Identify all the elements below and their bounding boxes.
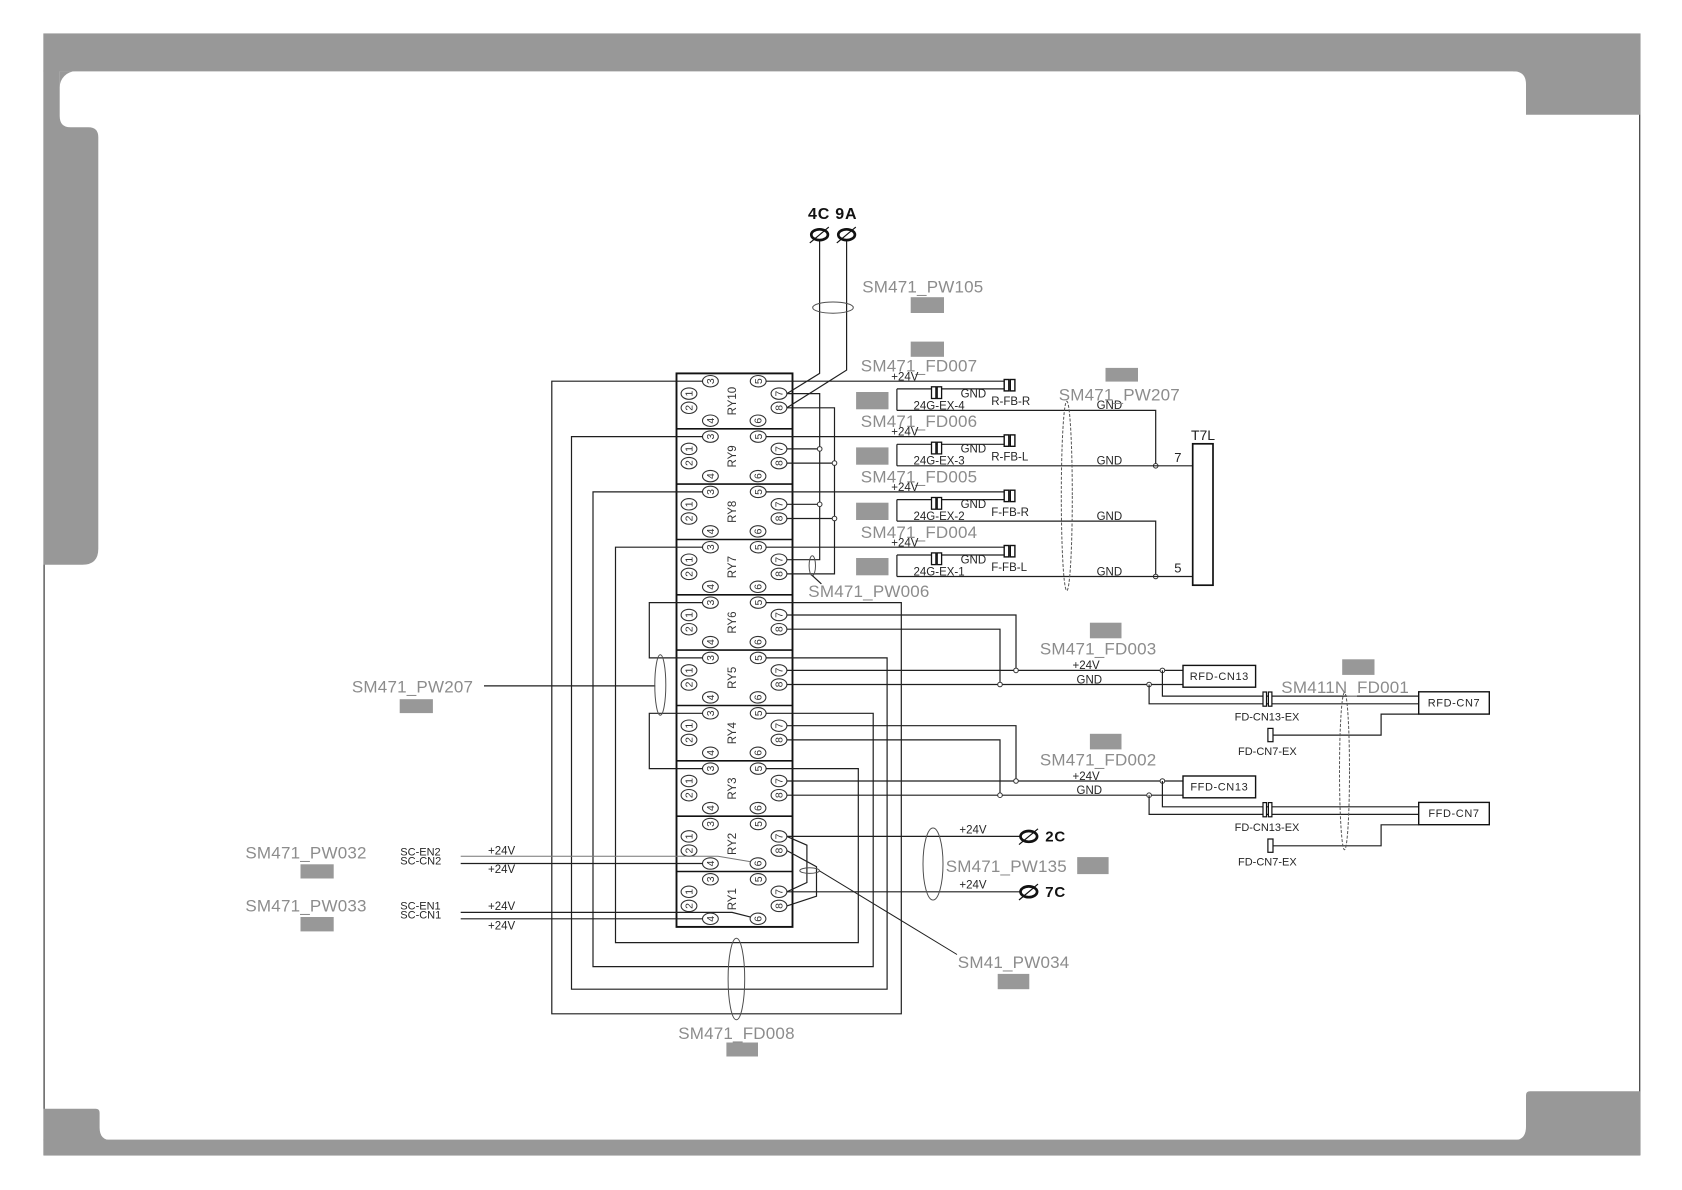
cable ellipse SM471_FD008	[728, 938, 745, 1020]
svg-text:4: 4	[705, 528, 717, 534]
svg-text:RY4: RY4	[727, 722, 739, 745]
wire loop RY10.3 - RY6.5	[552, 381, 902, 1014]
cable ellipse SM471_PW006	[809, 556, 815, 576]
GND rail FD005	[897, 521, 1156, 576]
svg-text:1: 1	[684, 667, 696, 673]
svg-text:7: 7	[774, 612, 786, 618]
junction RY8.7	[817, 502, 822, 507]
cable ellipse SM471_PW207	[655, 655, 666, 715]
svg-text:GND: GND	[961, 444, 987, 456]
svg-text:3: 3	[705, 821, 717, 827]
svg-text:5: 5	[753, 544, 765, 550]
svg-text:2: 2	[684, 848, 696, 854]
svg-text:7: 7	[774, 667, 786, 673]
chain RY2.7 - RY1.7	[787, 836, 807, 891]
svg-text:8: 8	[774, 848, 786, 854]
wire RY6.7 drop	[787, 615, 1016, 670]
relay RY7 pins	[681, 542, 787, 593]
svg-text:F-FB-R: F-FB-R	[991, 507, 1029, 519]
svg-text:5: 5	[753, 766, 765, 772]
terminal 7C	[1019, 884, 1038, 900]
svg-text:FFD-CN13: FFD-CN13	[1190, 782, 1248, 794]
svg-text:6: 6	[753, 639, 765, 645]
svg-text:GND: GND	[961, 499, 987, 511]
svg-text:RY7: RY7	[727, 556, 739, 578]
svg-text:RY3: RY3	[727, 777, 739, 799]
svg-text:SM471_FD002: SM471_FD002	[1040, 750, 1157, 769]
svg-text:5: 5	[753, 434, 765, 440]
svg-text:GND: GND	[961, 554, 987, 566]
svg-text:5: 5	[753, 710, 765, 716]
svg-text:7: 7	[774, 501, 786, 507]
wire RY2.7 - 2C	[787, 835, 1020, 837]
terminal 4C	[810, 227, 829, 243]
svg-text:FD-CN7-EX: FD-CN7-EX	[1238, 857, 1297, 869]
svg-text:8: 8	[774, 792, 786, 798]
svg-text:2: 2	[684, 681, 696, 687]
junction GND 5	[1153, 574, 1158, 579]
relay divider RY5/RY4	[677, 705, 793, 707]
svg-text:3: 3	[705, 489, 717, 495]
tap RY8.7	[787, 503, 820, 505]
svg-text:5: 5	[753, 655, 765, 661]
relay RY1 pins	[681, 874, 787, 925]
svg-text:SM41_PW034: SM41_PW034	[958, 953, 1070, 972]
svg-text:R-FB-L: R-FB-L	[991, 452, 1029, 464]
gray swatch SM471_PW207 (right)	[1106, 368, 1139, 382]
svg-text:7C: 7C	[1045, 884, 1066, 901]
svg-text:6: 6	[753, 860, 765, 866]
svg-text:RY6: RY6	[727, 611, 739, 633]
svg-text:RY5: RY5	[727, 667, 739, 689]
svg-text:SM411N_FD001: SM411N_FD001	[1281, 678, 1409, 697]
wire RY4.7 drop	[787, 726, 1016, 781]
gray swatch SM41_PW034	[998, 974, 1030, 989]
gray frame: top-right block	[1513, 71, 1640, 115]
relay RY2 pins	[681, 818, 787, 869]
tap RY9.7	[787, 448, 820, 450]
wire loop RY9.3 - RY5.5	[572, 437, 888, 990]
svg-text:T7L: T7L	[1191, 427, 1215, 443]
cable ellipse SM471_PW105	[813, 302, 854, 313]
svg-text:3: 3	[705, 378, 717, 384]
svg-text:2: 2	[684, 571, 696, 577]
svg-text:7: 7	[774, 446, 786, 452]
chain RY2.8 - RY1.8	[787, 851, 817, 906]
svg-text:SM471_PW105: SM471_PW105	[862, 278, 983, 297]
gray frame: bottom bar	[43, 1140, 1640, 1156]
svg-text:7: 7	[774, 723, 786, 729]
svg-text:SM471_PW135: SM471_PW135	[946, 857, 1067, 876]
group SM471_FD006	[766, 412, 1029, 468]
svg-text:2: 2	[684, 460, 696, 466]
group SM471_FD005	[766, 467, 1029, 523]
relay divider RY6/RY5	[677, 649, 793, 651]
svg-text:4: 4	[705, 860, 717, 866]
svg-text:GND: GND	[961, 388, 987, 400]
svg-text:SM471_FD008: SM471_FD008	[678, 1024, 795, 1043]
svg-text:1: 1	[684, 391, 696, 397]
connector T7L	[1193, 444, 1213, 585]
label pointer SM471_PW006	[812, 576, 821, 584]
svg-text:4: 4	[705, 584, 717, 590]
svg-text:RY10: RY10	[727, 387, 739, 416]
wire RY1.7 - 7C	[787, 891, 1020, 893]
svg-text:7: 7	[774, 557, 786, 563]
svg-text:5: 5	[753, 876, 765, 882]
wire 4C - RY10.7	[787, 242, 820, 394]
svg-text:SM471_FD007: SM471_FD007	[861, 357, 978, 376]
svg-text:8: 8	[774, 681, 786, 687]
relay divider RY4/RY3	[677, 760, 793, 762]
svg-text:6: 6	[753, 473, 765, 479]
svg-text:GND: GND	[1097, 456, 1123, 468]
svg-text:8: 8	[774, 515, 786, 521]
svg-text:4: 4	[705, 418, 717, 424]
svg-text:1: 1	[684, 446, 696, 452]
tap RY8.8	[787, 518, 835, 520]
cable ellipse SM471_PW135	[923, 828, 943, 900]
svg-text:7: 7	[774, 778, 786, 784]
svg-text:SM471_FD006: SM471_FD006	[861, 412, 978, 431]
GND rail FD004 to T7L pin5	[897, 576, 1193, 578]
svg-text:R-FB-R: R-FB-R	[991, 396, 1030, 408]
svg-text:4C 9A: 4C 9A	[808, 206, 857, 223]
svg-text:3: 3	[705, 434, 717, 440]
svg-text:4: 4	[705, 639, 717, 645]
svg-text:8: 8	[774, 571, 786, 577]
terminal 9A	[837, 227, 856, 243]
svg-text:2: 2	[684, 515, 696, 521]
svg-text:3: 3	[705, 710, 717, 716]
svg-text:SM471_PW207: SM471_PW207	[352, 678, 473, 697]
svg-text:5: 5	[1174, 561, 1181, 576]
svg-text:2: 2	[684, 405, 696, 411]
svg-text:7: 7	[774, 833, 786, 839]
relay divider RY10/RY9	[677, 428, 793, 430]
cable ellipse SM471_PW207 (right)	[1061, 401, 1072, 590]
GND rail FD006 to T7L pin7	[897, 465, 1193, 467]
svg-text:4: 4	[705, 805, 717, 811]
gray frame: bottom-left block	[43, 1109, 111, 1141]
svg-text:1: 1	[684, 889, 696, 895]
svg-text:SM471_PW033: SM471_PW033	[245, 896, 366, 915]
svg-text:FD-CN13-EX: FD-CN13-EX	[1235, 822, 1300, 834]
svg-text:7: 7	[774, 391, 786, 397]
terminal 2C	[1019, 829, 1038, 845]
svg-text:5: 5	[753, 600, 765, 606]
svg-text:6: 6	[753, 528, 765, 534]
GND rail FD007	[897, 410, 1156, 465]
gray swatch SM471_PW105	[911, 297, 944, 313]
svg-text:6: 6	[753, 916, 765, 922]
svg-text:8: 8	[774, 737, 786, 743]
svg-text:SM471_FD004: SM471_FD004	[861, 523, 978, 542]
svg-text:RFD-CN13: RFD-CN13	[1190, 671, 1249, 683]
svg-text:+24V: +24V	[488, 846, 516, 858]
relay column outline	[677, 373, 793, 927]
junction RY8.8	[832, 516, 837, 521]
gray swatch SM411N_FD001	[1342, 659, 1374, 675]
svg-text:1: 1	[684, 723, 696, 729]
label pointer SM41_PW034	[819, 871, 957, 955]
wire jog RY6.3 - RY5.3	[649, 603, 702, 658]
svg-text:+24V: +24V	[488, 920, 516, 932]
svg-text:SM471_FD005: SM471_FD005	[861, 467, 978, 486]
junction RY9.7	[817, 447, 822, 452]
svg-text:6: 6	[753, 750, 765, 756]
svg-text:2: 2	[684, 903, 696, 909]
svg-text:6: 6	[753, 584, 765, 590]
relay divider RY8/RY7	[677, 539, 793, 541]
svg-text:FD-CN7-EX: FD-CN7-EX	[1238, 746, 1297, 758]
svg-text:FFD-CN7: FFD-CN7	[1428, 808, 1479, 820]
svg-text:2C: 2C	[1045, 829, 1066, 846]
cable ellipse SM41_PW034	[800, 868, 820, 874]
wire jog RY4.3 - RY3.3	[649, 713, 702, 768]
svg-text:5: 5	[753, 378, 765, 384]
svg-text:2: 2	[684, 626, 696, 632]
group SM471_FD007	[766, 357, 1030, 413]
svg-text:3: 3	[705, 544, 717, 550]
svg-text:8: 8	[774, 626, 786, 632]
relay RY10 pins	[681, 376, 787, 427]
svg-text:1: 1	[684, 501, 696, 507]
svg-text:SM471_PW207: SM471_PW207	[1059, 385, 1180, 404]
svg-text:8: 8	[774, 460, 786, 466]
relay RY4 pins	[681, 708, 787, 759]
svg-text:+24V: +24V	[959, 824, 987, 836]
relay divider RY9/RY8	[677, 483, 793, 485]
svg-text:3: 3	[705, 766, 717, 772]
svg-text:2: 2	[684, 792, 696, 798]
svg-text:6: 6	[753, 694, 765, 700]
wire 9A - RY10.8	[787, 242, 847, 408]
relay RY3 pins	[681, 763, 787, 814]
svg-text:8: 8	[774, 405, 786, 411]
svg-text:3: 3	[705, 655, 717, 661]
svg-text:4: 4	[705, 473, 717, 479]
svg-text:FD-CN13-EX: FD-CN13-EX	[1235, 712, 1300, 724]
svg-text:RY2: RY2	[727, 833, 739, 855]
svg-text:F-FB-L: F-FB-L	[991, 562, 1027, 574]
svg-text:7: 7	[774, 889, 786, 895]
svg-text:+24V: +24V	[959, 880, 987, 892]
svg-text:5: 5	[753, 489, 765, 495]
wire loop RY7.3 - RY3.5	[616, 547, 859, 942]
gray swatch SM471_PW135	[1077, 857, 1108, 874]
svg-text:3: 3	[705, 876, 717, 882]
svg-text:5: 5	[753, 821, 765, 827]
group SM471_FD003	[787, 623, 1489, 758]
cable ellipse SM411N_FD001	[1340, 693, 1350, 850]
wire RY4.8 drop	[787, 740, 1000, 795]
relay RY8 pins	[681, 486, 787, 537]
svg-text:SM471_PW032: SM471_PW032	[245, 843, 366, 862]
svg-text:GND: GND	[1097, 566, 1123, 578]
relay RY6 pins	[681, 597, 787, 648]
svg-text:SM471_PW006: SM471_PW006	[808, 582, 929, 601]
junction RY9.8	[832, 461, 837, 466]
svg-text:4: 4	[705, 694, 717, 700]
wire SC-CN2	[461, 863, 703, 865]
wire loop RY8.3 - RY4.5	[593, 492, 873, 967]
svg-text:RY8: RY8	[727, 501, 739, 523]
svg-text:RY1: RY1	[727, 888, 739, 910]
wire SC-EN2	[461, 856, 750, 861]
wire RY6.8 drop	[787, 629, 1000, 684]
svg-text:1: 1	[684, 833, 696, 839]
svg-text:7: 7	[1174, 450, 1181, 465]
label pointer SM471_PW207	[484, 685, 655, 687]
svg-text:RFD-CN7: RFD-CN7	[1428, 697, 1480, 709]
svg-text:3: 3	[705, 600, 717, 606]
svg-text:SM471_FD003: SM471_FD003	[1040, 640, 1157, 659]
svg-text:2: 2	[684, 737, 696, 743]
bus RY10.8 - RY7.8	[787, 408, 835, 574]
group SM471_FD004	[766, 523, 1027, 579]
bus RY10.7 - RY7.7	[787, 394, 820, 560]
svg-text:GND: GND	[1097, 511, 1123, 523]
svg-text:1: 1	[684, 612, 696, 618]
tap RY9.8	[787, 462, 835, 464]
svg-text:SC-CN1: SC-CN1	[400, 909, 441, 921]
gray swatch SM471_PW032	[301, 864, 334, 878]
gray swatch SM471_PW207 (left)	[400, 699, 433, 713]
svg-text:8: 8	[774, 903, 786, 909]
wire SC-CN1	[461, 918, 703, 920]
relay RY9 pins	[681, 431, 787, 482]
gray frame: left column	[43, 71, 98, 565]
junction GND 7	[1153, 464, 1158, 469]
svg-text:+24V: +24V	[488, 864, 516, 876]
group SM471_FD002	[787, 734, 1489, 869]
svg-text:1: 1	[684, 778, 696, 784]
svg-text:1: 1	[684, 557, 696, 563]
svg-text:6: 6	[753, 805, 765, 811]
relay divider RY7/RY6	[677, 594, 793, 596]
relay RY5 pins	[681, 652, 787, 703]
svg-text:RY9: RY9	[727, 445, 739, 467]
gray swatch SM471_FD007	[911, 342, 944, 357]
svg-text:SC-CN2: SC-CN2	[400, 856, 441, 868]
svg-text:4: 4	[705, 750, 717, 756]
relay divider RY2/RY1	[677, 871, 793, 873]
gray frame: bottom-right block	[1513, 1091, 1640, 1140]
gray frame: top-left inner corner fillet	[60, 71, 76, 87]
svg-text:+24V: +24V	[488, 901, 516, 913]
wire SC-EN1	[461, 912, 750, 917]
gray swatch SM471_FD008	[726, 1043, 758, 1057]
gray frame: top bar	[43, 34, 1640, 72]
relay divider RY3/RY2	[677, 815, 793, 817]
gray swatch SM471_PW033	[301, 917, 334, 931]
svg-text:4: 4	[705, 916, 717, 922]
svg-text:6: 6	[753, 418, 765, 424]
